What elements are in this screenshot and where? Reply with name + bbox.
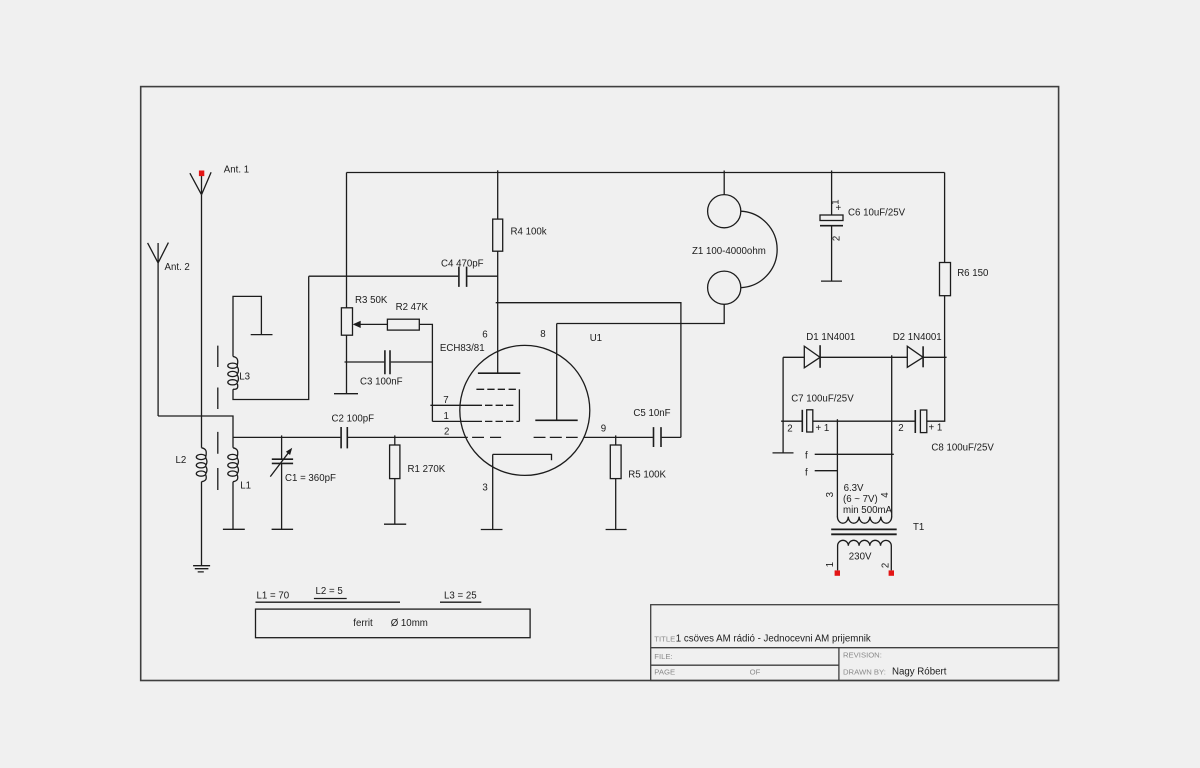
terminal bar C1: [272, 528, 294, 530]
capacitor C3: [345, 350, 433, 374]
resistor R4: [493, 170, 503, 373]
wire main cathode bus: [233, 436, 468, 438]
svg-text:+ 1: + 1: [816, 423, 830, 434]
wire Ant.2 pole down: [157, 263, 159, 416]
svg-text:L3: L3: [239, 371, 250, 382]
tube cathode pin 3: [493, 454, 552, 529]
svg-text:230V: 230V: [849, 552, 872, 563]
svg-text:D2 1N4001: D2 1N4001: [893, 332, 942, 343]
svg-text:Ant. 1: Ant. 1: [224, 165, 249, 176]
svg-text:C7 100uF/25V: C7 100uF/25V: [791, 394, 854, 405]
svg-text:C2 100pF: C2 100pF: [332, 414, 375, 425]
svg-text:U1: U1: [590, 333, 602, 344]
speaker Z1: [708, 171, 778, 305]
svg-text:2: 2: [787, 424, 792, 435]
capacitor C8 electrolytic: [892, 357, 945, 433]
svg-text:+ 1: + 1: [929, 423, 943, 434]
tube anode plate pin 6: [478, 372, 520, 374]
svg-text:1 csöves AM rádió - Jednocevni: 1 csöves AM rádió - Jednocevni AM prijem…: [676, 634, 871, 645]
wire pin 7 grid: [430, 404, 513, 406]
transformer T1 primary 230V: [838, 540, 892, 570]
wire top supply rail: [347, 172, 945, 174]
wire L3 bottom to branch: [233, 276, 309, 399]
mains terminal 1 red: [835, 570, 840, 575]
svg-text:ferrit: ferrit: [353, 618, 373, 629]
svg-text:Z1 100-4000ohm: Z1 100-4000ohm: [692, 246, 766, 257]
svg-text:2: 2: [444, 427, 449, 438]
svg-text:L2: L2: [176, 455, 187, 466]
svg-text:TITLE: TITLE: [654, 635, 675, 644]
wire C5 feedback loop to pin 6 node: [496, 303, 681, 438]
wire L3 top loop with tap terminal: [233, 296, 273, 356]
capacitor C1 variable: [270, 435, 293, 529]
svg-text:3: 3: [482, 483, 487, 494]
svg-text:OF: OF: [750, 668, 761, 677]
wire Ant.2 to L1 top: [158, 416, 233, 448]
svg-text:Ant. 2: Ant. 2: [165, 262, 190, 273]
terminal bar R5: [606, 529, 627, 531]
capacitor C4: [309, 267, 498, 287]
wire rectifier mid node down to transformer: [891, 355, 893, 517]
svg-text:C6 10uF/25V: C6 10uF/25V: [848, 207, 906, 218]
wire pin 9 to C5: [584, 436, 653, 438]
wire heater f2: [815, 470, 838, 472]
svg-text:REVISION:: REVISION:: [843, 651, 882, 660]
tube anode plate pin 8: [556, 324, 558, 421]
inductor L3: [228, 357, 239, 390]
svg-text:ECH83/81: ECH83/81: [440, 343, 485, 354]
svg-text:1: 1: [444, 411, 449, 422]
tube grid dashed top: [476, 388, 516, 390]
svg-text:FILE:: FILE:: [654, 652, 672, 661]
capacitor C7 electrolytic: [781, 410, 892, 432]
inductor L2: [196, 448, 207, 482]
wire speaker bottom to pin 8: [557, 304, 725, 323]
svg-text:3: 3: [825, 492, 836, 497]
terminal bar R3: [334, 393, 358, 395]
svg-text:f: f: [805, 451, 808, 462]
svg-text:C1 = 360pF: C1 = 360pF: [285, 473, 336, 484]
svg-text:6: 6: [482, 330, 487, 341]
svg-text:L2 = 5: L2 = 5: [316, 586, 343, 597]
svg-text:R6 150: R6 150: [957, 268, 989, 279]
border frame: [141, 87, 1059, 681]
svg-text:L1: L1: [240, 480, 251, 491]
svg-text:C5 10nF: C5 10nF: [633, 408, 670, 419]
svg-text:8: 8: [540, 329, 545, 340]
terminal bar left branch: [773, 452, 794, 454]
inductor L1: [228, 448, 239, 482]
svg-text:R3 50K: R3 50K: [355, 295, 388, 306]
antenna Ant.1: [190, 171, 211, 195]
svg-text:1: 1: [825, 562, 836, 567]
svg-text:(6 ~ 7V): (6 ~ 7V): [843, 494, 878, 505]
mains terminal 2 red: [889, 570, 894, 575]
svg-text:C4 470pF: C4 470pF: [441, 259, 484, 270]
terminal bar C6: [821, 280, 842, 282]
ferrite core dashed line: [217, 346, 219, 490]
svg-text:2: 2: [832, 236, 843, 241]
svg-text:Nagy Róbert: Nagy Róbert: [892, 666, 947, 677]
tube U1 envelope ECH83/81: [460, 345, 590, 475]
potentiometer R3: [341, 308, 387, 394]
svg-text:f: f: [805, 468, 808, 479]
capacitor C6 electrolytic: [820, 171, 843, 282]
svg-text:C8 100uF/25V: C8 100uF/25V: [931, 443, 994, 454]
antenna Ant.2: [148, 243, 169, 263]
svg-text:4: 4: [880, 492, 891, 498]
capacitor C5: [654, 427, 681, 447]
svg-text:R4 100k: R4 100k: [511, 227, 547, 238]
wire Ant.1 pole down to L2: [201, 195, 203, 448]
wire left rectifier branch down: [782, 357, 784, 453]
resistor R2: [387, 319, 432, 405]
svg-text:R5 100K: R5 100K: [628, 470, 666, 481]
wire pin 2 dashed through tube: [472, 436, 578, 438]
capacitor C2: [341, 427, 347, 448]
resistor R6: [940, 173, 951, 358]
svg-text:2: 2: [880, 563, 891, 568]
resistor R5: [610, 435, 621, 529]
diode D1: [783, 345, 907, 368]
svg-text:9: 9: [601, 423, 606, 434]
terminal bar L1: [223, 528, 245, 530]
svg-text:PAGE: PAGE: [654, 668, 675, 677]
terminal bar pin 3: [481, 529, 503, 531]
wire L2 bottom to ground: [201, 482, 203, 566]
resistor R1: [390, 435, 400, 524]
svg-text:D1 1N4001: D1 1N4001: [806, 332, 855, 343]
ground earth symbol: [193, 566, 210, 572]
note ferrit box: [256, 609, 531, 638]
svg-text:6.3V: 6.3V: [844, 483, 864, 494]
svg-text:R1 270K: R1 270K: [408, 464, 446, 475]
terminal bar R1: [384, 523, 406, 525]
svg-text:R2 47K: R2 47K: [396, 302, 429, 313]
svg-text:L1 = 70: L1 = 70: [257, 590, 290, 601]
wire L1 bottom: [232, 482, 234, 530]
diode D2: [907, 346, 946, 367]
svg-text:L3 = 25: L3 = 25: [444, 590, 477, 601]
svg-text:T1: T1: [913, 522, 924, 533]
wire pin 1 grid: [432, 405, 519, 421]
title block: [651, 605, 1059, 681]
tube grid right side: [518, 389, 520, 421]
wire heater tap down to transformer: [836, 419, 838, 517]
transformer T1 core: [831, 529, 897, 534]
wire left drop from rail to C4 node: [346, 173, 348, 308]
svg-text:min 500mA: min 500mA: [843, 505, 893, 516]
transformer T1 secondary 6.3V: [837, 517, 891, 524]
svg-text:+: +: [836, 203, 842, 214]
svg-text:Ø 10mm: Ø 10mm: [391, 618, 428, 629]
wire heater f1: [815, 453, 894, 455]
svg-text:C3 100nF: C3 100nF: [360, 377, 403, 388]
svg-text:7: 7: [443, 395, 448, 406]
svg-text:2: 2: [898, 423, 903, 434]
svg-text:DRAWN BY:: DRAWN BY:: [843, 667, 886, 676]
